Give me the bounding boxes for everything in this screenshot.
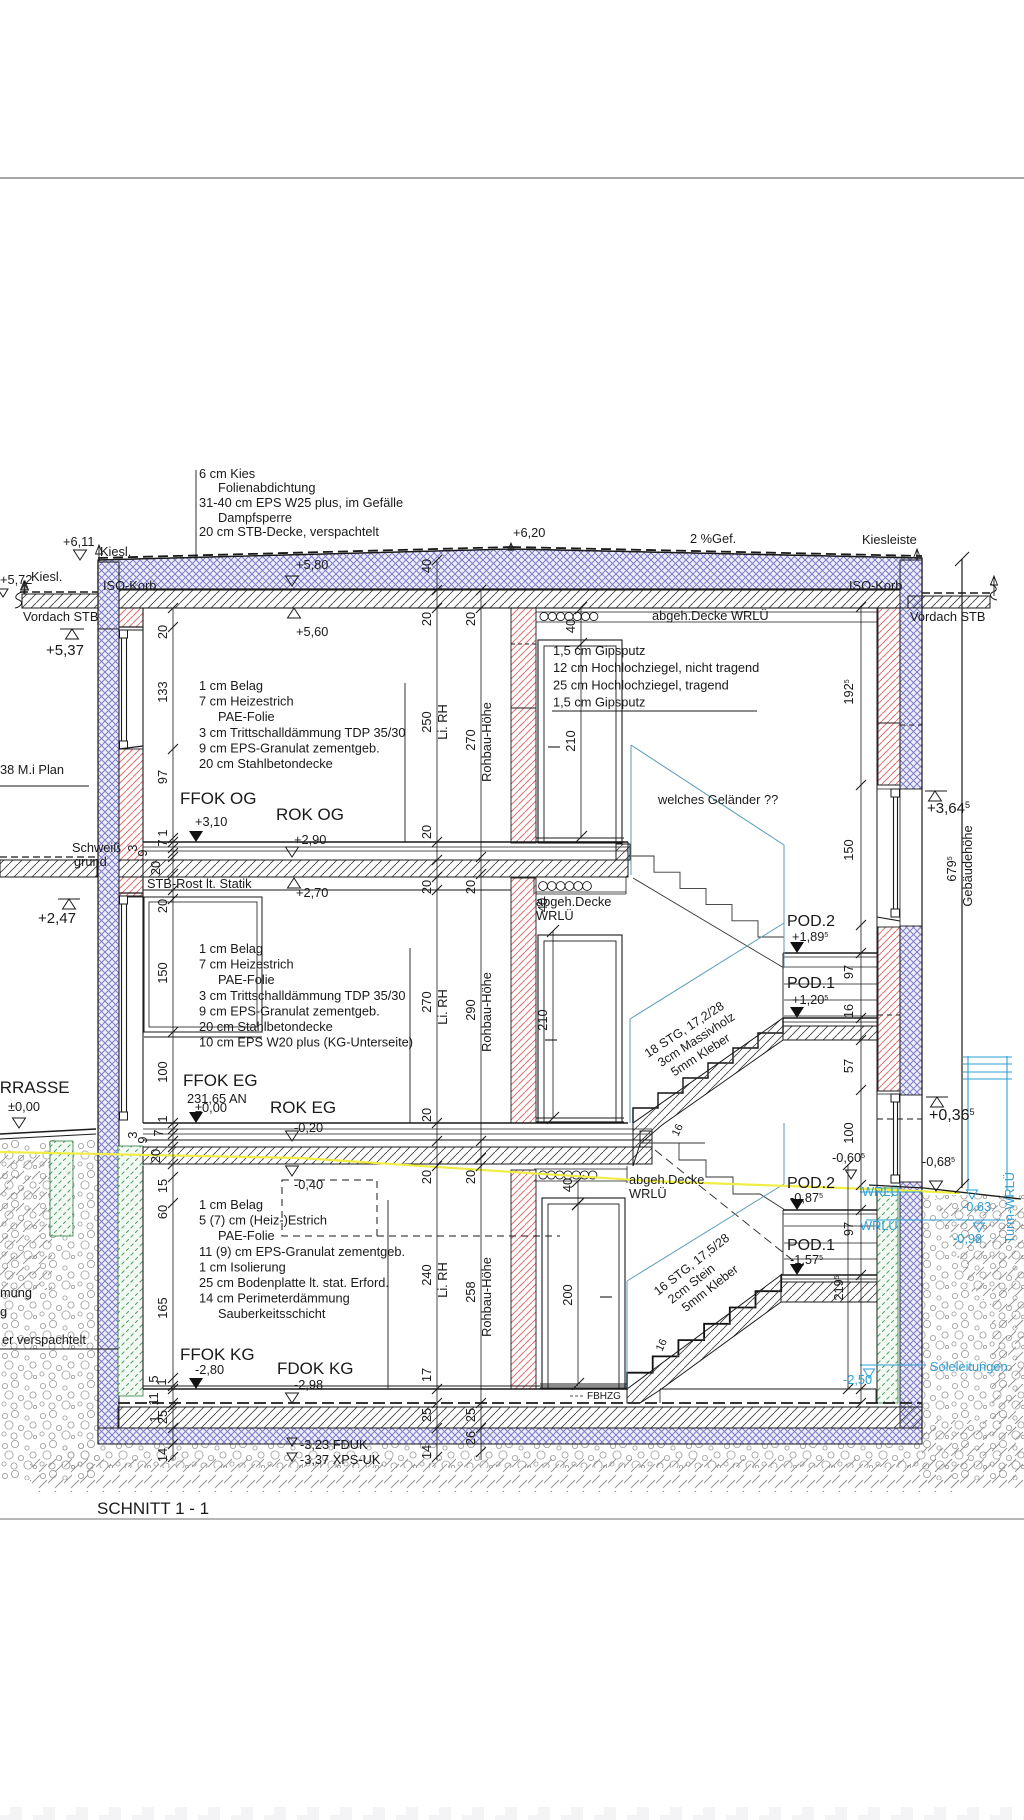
svg-text:abgeh.Decke WRLÜ: abgeh.Decke WRLÜ bbox=[652, 608, 769, 623]
svg-text:133: 133 bbox=[155, 681, 170, 702]
svg-text:210: 210 bbox=[535, 1009, 550, 1030]
svg-text:+5,80: +5,80 bbox=[296, 557, 328, 572]
svg-text:PAE-Folie: PAE-Folie bbox=[218, 709, 275, 724]
svg-text:Schweiß: Schweiß bbox=[72, 840, 121, 855]
svg-text:+6,20: +6,20 bbox=[513, 525, 545, 540]
svg-text:100: 100 bbox=[155, 1061, 170, 1082]
svg-text:25: 25 bbox=[463, 1408, 478, 1422]
svg-text:FBHZG: FBHZG bbox=[587, 1391, 621, 1402]
svg-text:20: 20 bbox=[155, 899, 170, 913]
svg-text:12 cm Hochlochziegel, nicht tr: 12 cm Hochlochziegel, nicht tragend bbox=[553, 660, 759, 675]
svg-text:20: 20 bbox=[148, 1149, 163, 1163]
svg-text:Vordach STB: Vordach STB bbox=[23, 609, 98, 624]
svg-text:150: 150 bbox=[841, 839, 856, 860]
svg-text:3 cm Trittschalldämmung TDP 35: 3 cm Trittschalldämmung TDP 35/30 bbox=[199, 725, 406, 740]
svg-text:+1,205: +1,205 bbox=[792, 992, 828, 1007]
svg-text:1: 1 bbox=[154, 1378, 169, 1385]
svg-text:Vordach STB: Vordach STB bbox=[910, 609, 985, 624]
svg-text:165: 165 bbox=[155, 1297, 170, 1318]
svg-text:40: 40 bbox=[560, 1178, 575, 1192]
svg-text:200: 200 bbox=[560, 1284, 575, 1305]
svg-text:Rohbau-Höhe: Rohbau-Höhe bbox=[479, 702, 494, 782]
svg-text:PAE-Folie: PAE-Folie bbox=[218, 1228, 275, 1243]
svg-text:10 cm EPS W20 plus (KG-Unterse: 10 cm EPS W20 plus (KG-Unterseite) bbox=[199, 1035, 413, 1050]
svg-text:290: 290 bbox=[463, 999, 478, 1020]
svg-text:ROK OG: ROK OG bbox=[276, 805, 344, 824]
svg-text:100: 100 bbox=[841, 1122, 856, 1143]
svg-text:+0,365: +0,365 bbox=[929, 1107, 975, 1124]
svg-text:40: 40 bbox=[563, 619, 578, 633]
svg-text:ROK EG: ROK EG bbox=[270, 1098, 336, 1117]
svg-text:ISO-Korb: ISO-Korb bbox=[103, 578, 156, 593]
svg-text:1: 1 bbox=[147, 1415, 162, 1422]
svg-text:Li. RH: Li. RH bbox=[435, 989, 450, 1025]
svg-text:20: 20 bbox=[419, 1108, 434, 1122]
svg-text:welches Geländer ??: welches Geländer ?? bbox=[657, 792, 778, 807]
svg-text:20: 20 bbox=[419, 612, 434, 626]
svg-text:270: 270 bbox=[419, 991, 434, 1012]
svg-text:7 cm Heizestrich: 7 cm Heizestrich bbox=[199, 694, 294, 709]
svg-text:PAE-Folie: PAE-Folie bbox=[218, 972, 275, 987]
svg-text:97: 97 bbox=[841, 1222, 856, 1236]
svg-text:+3,645: +3,645 bbox=[927, 800, 970, 817]
svg-text:7 cm Heizestrich: 7 cm Heizestrich bbox=[199, 957, 294, 972]
svg-text:7: 7 bbox=[151, 1129, 166, 1136]
svg-text:1 cm Belag: 1 cm Belag bbox=[199, 941, 263, 956]
svg-text:Turm-WRLÜ: Turm-WRLÜ bbox=[1002, 1172, 1017, 1243]
svg-text:7: 7 bbox=[155, 839, 170, 846]
svg-text:FDOK KG: FDOK KG bbox=[277, 1359, 354, 1378]
svg-text:+5,37: +5,37 bbox=[46, 642, 84, 659]
svg-text:20: 20 bbox=[463, 880, 478, 894]
svg-text:20: 20 bbox=[155, 625, 170, 639]
svg-text:+1,895: +1,895 bbox=[792, 929, 828, 944]
svg-text:5 (7) cm (Heiz-)Estrich: 5 (7) cm (Heiz-)Estrich bbox=[199, 1213, 327, 1228]
svg-text:±0,00: ±0,00 bbox=[8, 1099, 40, 1114]
svg-text:97: 97 bbox=[841, 965, 856, 979]
svg-text:11: 11 bbox=[146, 1392, 161, 1405]
svg-text:15: 15 bbox=[155, 1179, 170, 1193]
svg-text:20: 20 bbox=[419, 825, 434, 839]
svg-text:57: 57 bbox=[841, 1059, 856, 1073]
svg-text:+2,70: +2,70 bbox=[296, 885, 328, 900]
svg-text:210: 210 bbox=[563, 730, 578, 751]
svg-text:FFOK OG: FFOK OG bbox=[180, 789, 257, 808]
svg-text:ISO-Korb: ISO-Korb bbox=[849, 578, 902, 593]
svg-text:20: 20 bbox=[148, 861, 163, 875]
svg-text:+3,10: +3,10 bbox=[195, 814, 227, 829]
svg-text:-0,605: -0,605 bbox=[832, 1150, 865, 1165]
svg-text:9: 9 bbox=[135, 1136, 150, 1143]
svg-text:-0,685: -0,685 bbox=[922, 1154, 955, 1169]
svg-text:Soleleitungen: Soleleitungen bbox=[930, 1359, 1008, 1374]
svg-text:TERRASSE: TERRASSE bbox=[0, 1078, 70, 1097]
svg-text:grund: grund bbox=[74, 854, 107, 869]
svg-text:9 cm EPS-Granulat zementgeb.: 9 cm EPS-Granulat zementgeb. bbox=[199, 740, 380, 755]
svg-text:Li. RH: Li. RH bbox=[435, 1262, 450, 1298]
svg-text:Kiesl.: Kiesl. bbox=[100, 544, 131, 559]
svg-text:26: 26 bbox=[463, 1431, 478, 1445]
svg-text:g: g bbox=[0, 1304, 7, 1319]
svg-text:SCHNITT 1 - 1: SCHNITT 1 - 1 bbox=[97, 1499, 209, 1518]
svg-text:Rohbau-Höhe: Rohbau-Höhe bbox=[479, 1257, 494, 1337]
svg-text:20: 20 bbox=[419, 880, 434, 894]
svg-text:FFOK KG: FFOK KG bbox=[180, 1345, 255, 1364]
svg-text:-2,50: -2,50 bbox=[843, 1372, 872, 1387]
svg-text:240: 240 bbox=[419, 1264, 434, 1285]
svg-text:WRLÜ: WRLÜ bbox=[862, 1184, 900, 1199]
svg-text:-0,98: -0,98 bbox=[953, 1231, 982, 1246]
svg-text:+2,90: +2,90 bbox=[294, 832, 326, 847]
svg-text:1: 1 bbox=[155, 829, 170, 836]
svg-text:250: 250 bbox=[419, 711, 434, 732]
svg-text:9: 9 bbox=[135, 849, 150, 856]
svg-text:er verspachtelt: er verspachtelt bbox=[2, 1332, 86, 1347]
svg-text:20: 20 bbox=[463, 1170, 478, 1184]
svg-text:150: 150 bbox=[155, 962, 170, 983]
svg-text:20 cm STB-Decke, verspachtelt: 20 cm STB-Decke, verspachtelt bbox=[199, 524, 379, 539]
svg-text:16: 16 bbox=[841, 1004, 856, 1018]
svg-text:20: 20 bbox=[463, 612, 478, 626]
svg-text:Gebäudehöhe: Gebäudehöhe bbox=[960, 825, 975, 906]
svg-text:25 cm Bodenplatte lt. stat. Er: 25 cm Bodenplatte lt. stat. Erford. bbox=[199, 1275, 389, 1290]
svg-text:97: 97 bbox=[155, 770, 170, 784]
svg-text:20 cm Stahlbetondecke: 20 cm Stahlbetondecke bbox=[199, 1019, 333, 1034]
svg-text:abgeh.Decke: abgeh.Decke bbox=[536, 894, 611, 909]
svg-text:-2,80: -2,80 bbox=[195, 1362, 224, 1377]
svg-text:+2,47: +2,47 bbox=[38, 910, 76, 927]
svg-text:Kiesleiste: Kiesleiste bbox=[862, 532, 917, 547]
svg-text:270: 270 bbox=[463, 729, 478, 750]
svg-text:25 cm Hochlochziegel, tragend: 25 cm Hochlochziegel, tragend bbox=[553, 677, 729, 692]
svg-text:FFOK EG: FFOK EG bbox=[183, 1071, 258, 1090]
svg-text:+5,60: +5,60 bbox=[296, 624, 328, 639]
svg-text:1 cm Isolierung: 1 cm Isolierung bbox=[199, 1259, 286, 1274]
svg-text:258: 258 bbox=[463, 1281, 478, 1302]
svg-text:38 M.i Plan: 38 M.i Plan bbox=[0, 762, 64, 777]
svg-text:1: 1 bbox=[155, 1115, 170, 1122]
svg-text:20: 20 bbox=[419, 1170, 434, 1184]
svg-text:17: 17 bbox=[419, 1368, 434, 1382]
svg-text:POD.2: POD.2 bbox=[787, 913, 835, 930]
svg-text:-0,40: -0,40 bbox=[294, 1177, 323, 1192]
svg-text:Li. RH: Li. RH bbox=[435, 704, 450, 740]
svg-text:3 cm Trittschalldämmung TDP 35: 3 cm Trittschalldämmung TDP 35/30 bbox=[199, 988, 406, 1003]
svg-text:231,65 AN: 231,65 AN bbox=[187, 1091, 247, 1106]
svg-text:9 cm EPS-Granulat zementgeb.: 9 cm EPS-Granulat zementgeb. bbox=[199, 1003, 380, 1018]
svg-text:+6,11: +6,11 bbox=[63, 534, 94, 549]
svg-text:-0,20: -0,20 bbox=[294, 1120, 323, 1135]
svg-text:Dampfsperre: Dampfsperre bbox=[218, 510, 292, 525]
svg-text:31-40 cm EPS W25 plus, im Gefä: 31-40 cm EPS W25 plus, im Gefälle bbox=[199, 495, 403, 510]
svg-text:40: 40 bbox=[419, 559, 434, 573]
svg-text:Folienabdichtung: Folienabdichtung bbox=[218, 480, 315, 495]
svg-text:-3,37 XPS-UK: -3,37 XPS-UK bbox=[300, 1452, 381, 1467]
svg-text:Rohbau-Höhe: Rohbau-Höhe bbox=[479, 972, 494, 1052]
svg-text:-2,98: -2,98 bbox=[294, 1377, 323, 1392]
svg-text:abgeh.Decke: abgeh.Decke bbox=[629, 1172, 704, 1187]
svg-text:POD.1: POD.1 bbox=[787, 975, 835, 992]
svg-text:WRLÜ: WRLÜ bbox=[629, 1186, 667, 1201]
svg-text:Kiesl.: Kiesl. bbox=[31, 569, 62, 584]
svg-text:mung: mung bbox=[0, 1285, 32, 1300]
svg-text:14: 14 bbox=[419, 1445, 434, 1459]
svg-text:-3,23 FDUK: -3,23 FDUK bbox=[300, 1437, 368, 1452]
svg-text:+5,72: +5,72 bbox=[0, 572, 32, 587]
svg-text:14: 14 bbox=[155, 1448, 170, 1462]
svg-text:1,5 cm Gipsputz: 1,5 cm Gipsputz bbox=[553, 643, 645, 658]
svg-text:STB-Rost lt. Statik: STB-Rost lt. Statik bbox=[147, 876, 252, 891]
svg-text:1 cm Belag: 1 cm Belag bbox=[199, 1197, 263, 1212]
svg-text:20 cm Stahlbetondecke: 20 cm Stahlbetondecke bbox=[199, 756, 333, 771]
svg-text:WRLÜ: WRLÜ bbox=[860, 1218, 898, 1233]
svg-text:25: 25 bbox=[419, 1408, 434, 1422]
svg-text:-0,63: -0,63 bbox=[962, 1199, 991, 1214]
svg-text:11 (9) cm EPS-Granulat zementg: 11 (9) cm EPS-Granulat zementgeb. bbox=[199, 1244, 405, 1259]
svg-text:1 cm Belag: 1 cm Belag bbox=[199, 678, 263, 693]
svg-text:WRLÜ: WRLÜ bbox=[536, 908, 574, 923]
svg-text:6 cm Kies: 6 cm Kies bbox=[199, 466, 255, 481]
svg-text:Sauberkeitsschicht: Sauberkeitsschicht bbox=[218, 1306, 326, 1321]
svg-text:1,5 cm Gipsputz: 1,5 cm Gipsputz bbox=[553, 695, 645, 710]
svg-text:14 cm Perimeterdämmung: 14 cm Perimeterdämmung bbox=[199, 1291, 350, 1306]
svg-text:2 %Gef.: 2 %Gef. bbox=[690, 531, 736, 546]
svg-text:60: 60 bbox=[155, 1205, 170, 1219]
